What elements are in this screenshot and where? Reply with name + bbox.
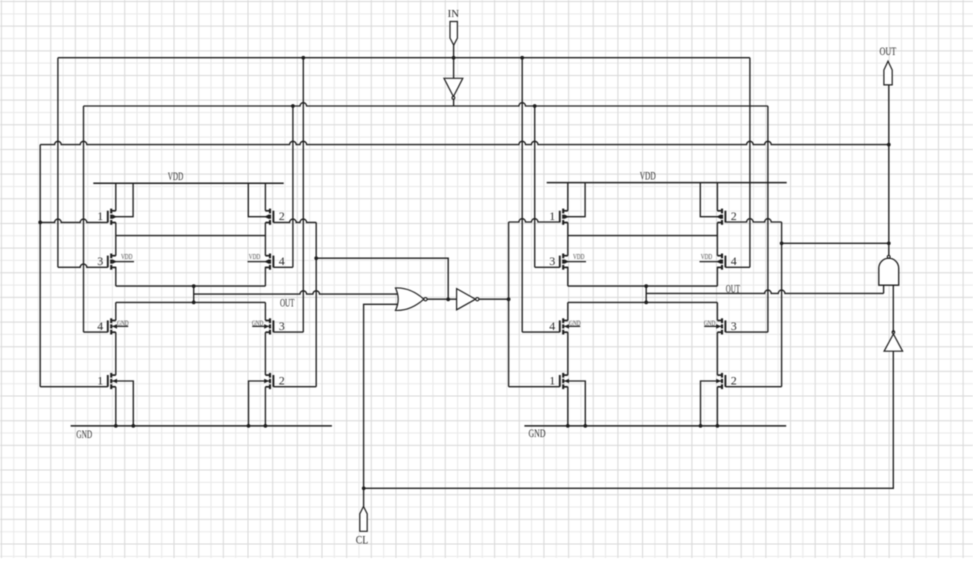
wire left M4 source down (265, 267, 266, 286)
label right 4 row3 (549, 319, 555, 333)
wire right node bus lower (568, 301, 718, 303)
wire left M3 body tap (111, 261, 134, 263)
wire gate net v-x768 (767, 106, 769, 332)
wire left M1 drain to VDD (115, 183, 117, 211)
junction left node upper (192, 284, 196, 288)
junction NOR out feedback (446, 298, 450, 302)
transistor right row3 3 (right) (716, 318, 725, 334)
wire gate net v-x293 (292, 106, 294, 267)
wire right M4 source down (717, 267, 718, 286)
label VDD right (640, 171, 656, 183)
svg-text:1: 1 (549, 374, 555, 388)
wire T2low gate lead R (725, 386, 781, 388)
nand gate U4 (879, 255, 899, 285)
label GND right (529, 428, 546, 440)
label left M3 body VDD (121, 254, 133, 261)
label VDD left (168, 171, 184, 183)
wire right node link (645, 286, 647, 302)
svg-text:GND: GND (252, 321, 264, 328)
svg-text:VDD: VDD (701, 254, 713, 261)
wire right M6 drain up (716, 302, 718, 320)
wire right M8 source to GND (716, 387, 718, 426)
wire left M3 source down (115, 267, 116, 286)
inverter U2 (buffer) (457, 289, 479, 310)
transistor left row3 4 (left) (108, 318, 117, 334)
nor gate U1 (396, 288, 428, 310)
junction bus-IN x522 (520, 56, 524, 60)
transistor left row4 1 (left) (108, 373, 117, 389)
wire NOR lower input (364, 304, 400, 488)
transistor left row1 1 (left) (108, 209, 117, 225)
transistor right row2 3 (left) (560, 254, 569, 270)
svg-text:2: 2 (279, 209, 285, 223)
svg-text:3: 3 (549, 254, 555, 268)
label left 2 row4 (279, 374, 285, 388)
wire left M6 drain up (264, 302, 266, 320)
svg-text:IN: IN (448, 9, 460, 20)
junction busC/OUT (887, 143, 891, 147)
wire left M8 body to GND (249, 381, 271, 426)
wire gate net v-x750 (749, 58, 751, 268)
junction right node lower (644, 301, 648, 305)
junction x782 feedback (780, 241, 784, 245)
transistor right row3 4 (left) (560, 318, 569, 334)
wire left node bus upper (116, 285, 266, 287)
svg-text:1: 1 (549, 209, 555, 223)
junction right GND rail x700 (699, 424, 703, 428)
wire gate net v-x316 (315, 222, 317, 386)
inverter U3 (IN buffer) (444, 78, 463, 99)
label left 1 row1 (97, 209, 103, 223)
wire NOR out (427, 298, 457, 300)
svg-text:1: 1 (97, 209, 103, 223)
label right 2 row1 (731, 209, 737, 223)
transistor left row1 2 (right) (264, 209, 273, 225)
wire left M6 source to M8 drain (264, 332, 266, 375)
wire U5 out dot (892, 330, 894, 332)
wire CL pin (363, 488, 365, 506)
svg-text:3: 3 (279, 319, 285, 333)
wire T4up gate lead L (273, 266, 293, 268)
svg-text:VDD: VDD (640, 171, 656, 183)
junction left GND rail x248 (247, 424, 251, 428)
wire right M5 source to M7 drain (567, 332, 569, 375)
svg-text:4: 4 (279, 254, 285, 268)
label right M3 body VDD (573, 254, 585, 261)
wire gate net v-x535 (534, 106, 536, 267)
wire left M5 source to M7 drain (115, 332, 117, 375)
svg-text:GND: GND (117, 321, 129, 328)
wire right node bus upper (568, 285, 718, 287)
svg-text:VDD: VDD (168, 171, 184, 183)
svg-text:4: 4 (731, 254, 737, 268)
wire gate net v-x782 (781, 222, 783, 387)
wire bus C (y=144.6) (40, 141, 889, 144)
wire gate net v-x303 (302, 58, 304, 332)
label right 3 row3 (731, 319, 737, 333)
junction x316 feedback (314, 256, 318, 260)
junction right GND rail x568 (566, 424, 570, 428)
junction x40 gate tee (38, 221, 42, 225)
wire T1up gate lead R (509, 219, 560, 222)
svg-text:OUT: OUT (880, 46, 897, 58)
label right 3 row2 (549, 254, 555, 268)
wire left M1 source to M3 drain (115, 223, 117, 256)
wire left M1 body to VDD (111, 183, 133, 216)
label GND left (76, 429, 92, 441)
wire T4up gate lead R (725, 266, 750, 268)
wire right M6 source to M8 drain (716, 332, 718, 375)
port IN label (448, 9, 460, 20)
junction left GND rail x133 (131, 424, 135, 428)
wire left node link (193, 286, 195, 302)
junction left GND rail x265 (264, 424, 268, 428)
port pin IN (450, 22, 457, 46)
label OUT left (280, 297, 295, 309)
wire left M2 source to M4 drain (264, 223, 266, 256)
svg-text:GND: GND (569, 321, 581, 328)
svg-text:2: 2 (279, 374, 285, 388)
wire T1low gate lead R (509, 386, 560, 388)
wire right M3 source down (567, 267, 568, 286)
label left M4 body VDD (249, 254, 261, 261)
junction OUT/feedback (887, 241, 891, 245)
wire feedback left (y=258) (316, 258, 448, 299)
wire right M2 drain to VDD (716, 183, 718, 211)
wire gate net v-x40 (39, 145, 41, 387)
transistor left row2 3 (left) (108, 254, 117, 270)
port OUT label (880, 46, 897, 58)
label right 4 row2 (731, 254, 737, 268)
wire left M2 drain to VDD (264, 183, 266, 211)
wire right M2 body to VDD (700, 183, 722, 217)
wire T2up gate lead L (273, 219, 316, 222)
inverter U5 (CL) (884, 331, 903, 351)
wire right M5 body tap (563, 325, 580, 327)
wire gate net v-x509 (508, 222, 510, 387)
label left 4 row3 (97, 319, 103, 333)
wire OUT-left to NOR (194, 291, 400, 294)
label right 1 row1 (549, 209, 555, 223)
wire feedback right (y=243) (782, 242, 889, 244)
wire left node bus lower (116, 301, 266, 303)
wire T4low gate lead R (522, 331, 560, 333)
svg-text:4: 4 (97, 319, 103, 333)
svg-text:GND: GND (704, 321, 716, 328)
port pin OUT (884, 61, 892, 85)
label right 2 row4 (731, 374, 737, 388)
label left M5 body GND (117, 321, 129, 328)
junction left node lower (192, 301, 196, 305)
wire left M7 body to GND (111, 381, 133, 426)
wire T4low gate lead L (84, 331, 108, 333)
wire gate net v-x58 (57, 58, 59, 268)
wire bus-IN to U3 input (453, 58, 455, 79)
wire T2low gate lead L (273, 386, 316, 388)
power rail GND right (524, 425, 786, 427)
svg-text:OUT: OUT (280, 297, 295, 309)
wire left M4 body tap (248, 261, 271, 263)
wire bus B (y=106) (84, 103, 768, 106)
wire NAND right input (892, 285, 894, 330)
svg-text:VDD: VDD (573, 254, 585, 261)
wire T1low gate lead L (40, 386, 108, 388)
wire right M5 drain up (567, 302, 569, 320)
svg-text:GND: GND (76, 429, 92, 441)
junction bus-IN x303 (301, 56, 305, 60)
transistor right row1 1 (left) (560, 209, 569, 225)
wire OUT pin down to NAND (888, 85, 890, 256)
transistor right row2 4 (right) (716, 254, 725, 270)
svg-text:3: 3 (731, 319, 737, 333)
wire right M1 drain to VDD (567, 183, 569, 211)
label right 1 row4 (549, 374, 555, 388)
wire gate net v-x522 (521, 58, 523, 332)
wire left M5 body tap (111, 325, 128, 327)
svg-text:OUT: OUT (726, 284, 740, 296)
wire T1up gate lead L (40, 219, 108, 222)
junction left GND rail x116 (114, 424, 118, 428)
power rail VDD right (547, 182, 787, 184)
junction right node upper (644, 284, 648, 288)
junction x509 buffer (507, 297, 511, 301)
label left 4 row2 (279, 254, 285, 268)
label left 3 row3 (279, 319, 285, 333)
transistor right row4 2 (right) (716, 373, 725, 389)
label right M5 body GND (569, 321, 581, 328)
svg-text:VDD: VDD (121, 254, 133, 261)
junction busB x293 (291, 104, 295, 108)
wire right M8 body to GND (701, 381, 723, 426)
wire left M5 drain up (115, 302, 117, 320)
power rail VDD left (93, 182, 283, 184)
wire right M6 body tap (704, 325, 722, 327)
wire right M1 body to VDD (563, 183, 585, 217)
label left 1 row4 (97, 374, 103, 388)
transistor left row3 3 (right) (264, 318, 273, 334)
junction busB x535 (533, 104, 537, 108)
transistor right row4 1 (left) (560, 373, 569, 389)
transistor left row2 4 (right) (264, 254, 273, 270)
svg-text:CL: CL (356, 535, 369, 547)
wire U3 output to bus B (453, 99, 455, 106)
wire right inner node (568, 235, 718, 237)
label left 3 row2 (97, 254, 103, 268)
wire OUT-right to NAND (646, 285, 883, 293)
wire right M4 body tap (700, 261, 723, 263)
label right M4 body VDD (701, 254, 713, 261)
transistor left row4 2 (right) (264, 373, 273, 389)
wire T2up gate lead R (725, 219, 781, 222)
port CL label (356, 535, 369, 547)
wire right M2 source to M4 drain (716, 223, 718, 256)
junction right GND rail x717 (716, 424, 720, 428)
wire IN pin to bus (453, 45, 455, 58)
label left 2 row1 (279, 209, 285, 223)
wire right M3 body tap (563, 261, 586, 263)
svg-text:1: 1 (97, 374, 103, 388)
wire bus IN (y=58) (58, 57, 750, 59)
wire left M7 source to GND (115, 387, 117, 426)
svg-text:2: 2 (731, 209, 737, 223)
svg-text:GND: GND (529, 428, 546, 440)
label left M6 body GND (252, 321, 264, 328)
port pin CL (360, 506, 367, 531)
wire U2 out to right block (479, 298, 509, 300)
transistor right row1 2 (right) (716, 209, 725, 225)
svg-text:VDD: VDD (249, 254, 261, 261)
wire right M1 source to M3 drain (567, 223, 569, 256)
power rail GND left (71, 425, 332, 427)
wire left inner node (116, 235, 266, 237)
svg-text:4: 4 (549, 319, 555, 333)
wire U5 input from CL (364, 351, 894, 488)
svg-text:3: 3 (97, 254, 103, 268)
wire T3up gate lead R (535, 266, 560, 268)
label right M6 body GND (704, 321, 716, 328)
label OUT right (726, 284, 740, 296)
junction right GND rail x585 (583, 424, 587, 428)
wire T3low gate lead R (725, 331, 768, 333)
wire left M6 body tap (252, 325, 270, 327)
svg-text:2: 2 (731, 374, 737, 388)
wire left M2 body to VDD (248, 183, 270, 216)
wire right M7 source to GND (567, 387, 569, 426)
wire T3low gate lead L (273, 331, 303, 333)
wire right M7 body to GND (563, 381, 585, 426)
junction IN/bus (452, 56, 456, 60)
wire gate net v-x83 (83, 106, 85, 332)
wire left M8 source to GND (264, 387, 266, 426)
junction CL (362, 486, 366, 490)
wire T3up gate lead L (58, 264, 108, 267)
